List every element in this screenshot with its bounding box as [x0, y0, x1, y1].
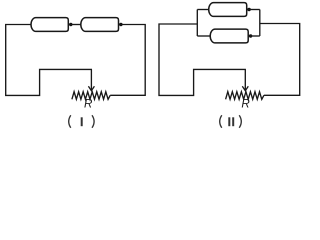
wire: top branch left lead (circuit II) — [197, 9, 208, 11]
label R (circuit I) — [84, 98, 93, 111]
wire: top-right lead and right side of circuit I down to resistor R lead — [110, 25, 145, 96]
wire: right parallel riser (circuit II) — [259, 10, 261, 37]
wiper arrow wire of rheostat R (circuit II) — [244, 69, 246, 90]
wire: top branch right lead (circuit II) — [247, 9, 260, 11]
wiper arrow wire of rheostat R (circuit I) — [90, 69, 92, 90]
wiper arrowhead (circuit I) — [88, 86, 94, 90]
rheostat R zigzag (circuit I) — [72, 92, 110, 100]
junction dot right of bottom cylinder (circuit II) — [249, 34, 252, 37]
rheostat R zigzag (circuit II) — [226, 92, 264, 100]
wire: left parallel riser (circuit II) — [196, 10, 198, 37]
junction dot right of top cylinder (circuit II) — [247, 8, 250, 11]
wire: bottom branch left lead (circuit II) — [197, 35, 210, 37]
caption ( II ) — [220, 115, 242, 128]
wire: output lead and right side of circuit II down to resistor R lead — [260, 24, 300, 96]
wire: left loop of circuit II (input lead, left side, bottom, step riser, step top) — [159, 24, 246, 95]
wiper arrowhead (circuit II) — [242, 86, 248, 90]
wire: left loop of circuit I (top-left lead, left side, bottom, step riser, step top) — [6, 25, 92, 96]
resistor (cylinder) 1 of circuit I — [31, 18, 68, 32]
svg-text:R: R — [84, 98, 93, 111]
label R (circuit II) — [241, 98, 250, 111]
svg-text:R: R — [241, 98, 250, 111]
caption ( I ) — [69, 115, 94, 128]
wire: bottom branch right lead (circuit II) — [248, 35, 260, 37]
junction dot right of cylinder 2 — [119, 23, 122, 26]
junction dot between cylinder 1 and cylinder 2 — [69, 23, 72, 26]
resistor (cylinder) 2 of circuit I — [81, 18, 119, 32]
wire: between the two series cylinders — [68, 24, 81, 26]
resistor (cylinder) top branch of circuit II — [209, 3, 247, 17]
resistor (cylinder) bottom branch of circuit II — [210, 29, 248, 43]
